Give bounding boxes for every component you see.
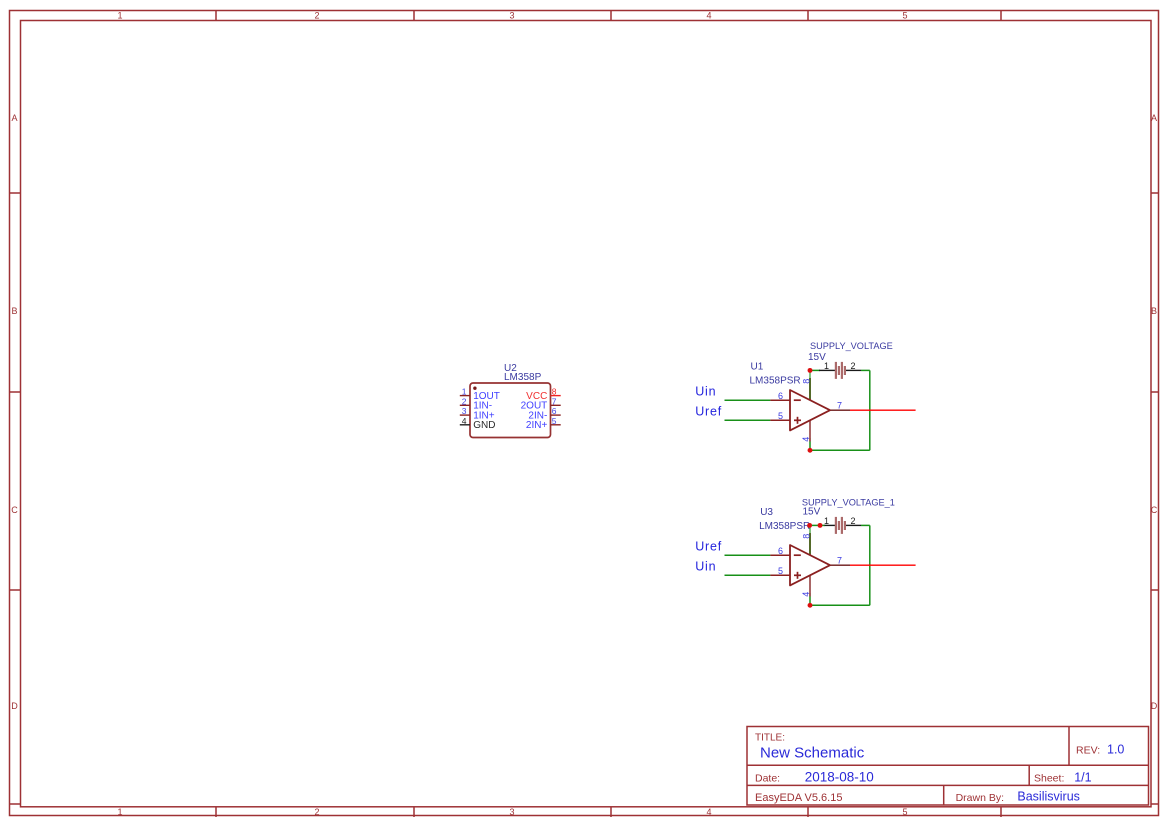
svg-text:4: 4 bbox=[801, 592, 811, 597]
wire node to pin 8 (U3) bbox=[809, 525, 811, 554]
svg-text:8: 8 bbox=[801, 379, 811, 384]
wire bottom horizontal (U3) bbox=[810, 604, 870, 606]
svg-text:Date:: Date: bbox=[755, 772, 780, 784]
svg-text:4: 4 bbox=[706, 11, 711, 21]
U2 pin 4 bbox=[460, 424, 470, 426]
svg-text:LM358P: LM358P bbox=[504, 372, 542, 383]
svg-text:Basilisvirus: Basilisvirus bbox=[1017, 790, 1080, 804]
U2 pin1 orientation dot bbox=[473, 387, 476, 390]
wire node to battery pin 1 bbox=[810, 369, 820, 371]
wire Uin to pin 5 (U3) bbox=[725, 574, 771, 576]
wire node to battery pin 1 (U3) bbox=[810, 524, 825, 526]
svg-text:1: 1 bbox=[117, 807, 122, 817]
junction node bottom bbox=[808, 448, 813, 453]
svg-text:New Schematic: New Schematic bbox=[760, 745, 865, 762]
wire battery pin 2 to right corner (U3) bbox=[861, 524, 870, 526]
svg-text:7: 7 bbox=[552, 396, 557, 406]
op-amp U1 pin 7 bbox=[830, 409, 850, 411]
svg-text:Uref: Uref bbox=[695, 540, 722, 554]
svg-text:15V: 15V bbox=[803, 507, 821, 518]
svg-text:2: 2 bbox=[850, 516, 855, 526]
battery plates bbox=[836, 362, 845, 379]
svg-text:REV:: REV: bbox=[1076, 745, 1100, 757]
svg-text:4: 4 bbox=[462, 416, 467, 426]
U2 pin 3 bbox=[460, 414, 470, 416]
svg-text:3: 3 bbox=[509, 11, 514, 21]
op-amp U3 minus sign bbox=[794, 554, 801, 556]
U2 pin 5 bbox=[551, 424, 561, 426]
svg-text:6: 6 bbox=[552, 406, 557, 416]
svg-text:3: 3 bbox=[462, 406, 467, 416]
junction node bottom (U3) bbox=[808, 603, 813, 608]
wire right vertical (U3) bbox=[869, 525, 871, 605]
svg-text:7: 7 bbox=[837, 556, 842, 566]
battery pin 1 lead bbox=[819, 369, 835, 371]
svg-text:Uref: Uref bbox=[695, 404, 722, 418]
op-amp U3 plus sign bbox=[794, 574, 801, 576]
IC U2 LM358P bbox=[460, 363, 561, 438]
op-amp U1 minus sign bbox=[794, 399, 801, 401]
op-amp U1 pin 8 bbox=[809, 378, 811, 400]
wire Uref to pin 6 (U3) bbox=[725, 554, 771, 556]
svg-text:SUPPLY_VOLTAGE: SUPPLY_VOLTAGE bbox=[810, 341, 893, 351]
svg-text:Drawn By:: Drawn By: bbox=[956, 792, 1004, 804]
svg-text:2: 2 bbox=[462, 396, 467, 406]
wire right vertical bbox=[869, 370, 871, 450]
U2 pin 8 bbox=[551, 395, 561, 397]
svg-text:6: 6 bbox=[778, 391, 783, 401]
U2 pin 6 bbox=[551, 414, 561, 416]
svg-text:A: A bbox=[11, 113, 17, 123]
svg-text:8: 8 bbox=[801, 534, 811, 539]
U2 pin 7 bbox=[551, 404, 561, 406]
svg-text:1: 1 bbox=[824, 361, 829, 371]
wire Uref to pin 5 bbox=[725, 419, 771, 421]
svg-text:D: D bbox=[11, 701, 18, 711]
svg-text:1: 1 bbox=[117, 11, 122, 21]
op-amp U1 triangle bbox=[790, 390, 830, 430]
output wire pin 7 bbox=[850, 409, 916, 411]
svg-text:TITLE:: TITLE: bbox=[755, 733, 785, 744]
svg-text:2018-08-10: 2018-08-10 bbox=[805, 769, 874, 784]
svg-text:D: D bbox=[1151, 701, 1158, 711]
svg-text:5: 5 bbox=[778, 566, 783, 576]
battery pin 2 lead bbox=[846, 369, 861, 371]
svg-text:LM358PSR: LM358PSR bbox=[759, 521, 810, 532]
op-amp U3 pin 8 bbox=[809, 533, 811, 555]
svg-text:LM358PSR: LM358PSR bbox=[750, 376, 801, 387]
op-amp U1 pin 5 bbox=[770, 419, 790, 421]
svg-text:U1: U1 bbox=[751, 362, 764, 373]
svg-text:4: 4 bbox=[801, 437, 811, 442]
op-amp U3 pin 7 bbox=[830, 564, 850, 566]
junction node top bbox=[808, 368, 813, 373]
svg-text:3: 3 bbox=[509, 807, 514, 817]
wire battery pin 2 to right corner bbox=[861, 369, 870, 371]
op-amp U3 pin 4 bbox=[809, 575, 811, 596]
svg-text:5: 5 bbox=[778, 411, 783, 421]
svg-text:2: 2 bbox=[850, 361, 855, 371]
op-amp U1 pin 4 bbox=[809, 420, 811, 441]
junction node top left (U3) bbox=[807, 523, 812, 528]
battery plates (U3) bbox=[836, 517, 845, 534]
junction node top right (U3) bbox=[818, 523, 823, 528]
output wire pin 7 (U3) bbox=[850, 564, 916, 566]
svg-text:1: 1 bbox=[824, 516, 829, 526]
svg-text:U3: U3 bbox=[760, 507, 773, 518]
svg-text:1.0: 1.0 bbox=[1107, 743, 1124, 757]
wire Uin to pin 6 bbox=[725, 399, 771, 401]
op-amp U3 pin 6 bbox=[770, 554, 790, 556]
battery pin 1 lead (U3) bbox=[825, 524, 836, 526]
op-amp U1 pin 6 bbox=[770, 399, 790, 401]
battery pin 2 lead (U3) bbox=[846, 524, 861, 526]
svg-text:GND: GND bbox=[473, 420, 495, 431]
op-amp U3 triangle bbox=[790, 545, 830, 585]
U2 body bbox=[470, 383, 551, 438]
svg-text:2IN+: 2IN+ bbox=[526, 420, 548, 431]
svg-text:1/1: 1/1 bbox=[1074, 770, 1091, 784]
svg-text:1: 1 bbox=[462, 387, 467, 397]
svg-text:C: C bbox=[11, 505, 18, 515]
svg-text:7: 7 bbox=[837, 401, 842, 411]
wire bottom horizontal bbox=[810, 449, 870, 451]
U2 pin 1 bbox=[460, 395, 470, 397]
svg-text:2: 2 bbox=[314, 807, 319, 817]
svg-text:C: C bbox=[1151, 505, 1158, 515]
svg-text:B: B bbox=[11, 306, 17, 316]
svg-text:Uin: Uin bbox=[695, 560, 716, 574]
wire node to pin 8 bbox=[809, 370, 811, 399]
svg-text:8: 8 bbox=[552, 387, 557, 397]
svg-text:5: 5 bbox=[902, 807, 907, 817]
svg-text:5: 5 bbox=[552, 416, 557, 426]
wire pin 4 to node bbox=[809, 438, 811, 450]
svg-text:Uin: Uin bbox=[695, 385, 716, 399]
svg-text:B: B bbox=[1151, 306, 1157, 316]
svg-text:2: 2 bbox=[314, 11, 319, 21]
wire pin 4 to node (U3) bbox=[809, 593, 811, 605]
svg-text:5: 5 bbox=[902, 11, 907, 21]
op-amp U3 pin 5 bbox=[770, 574, 790, 576]
svg-text:4: 4 bbox=[706, 807, 711, 817]
svg-text:EasyEDA V5.6.15: EasyEDA V5.6.15 bbox=[755, 792, 842, 804]
svg-text:6: 6 bbox=[778, 546, 783, 556]
svg-text:A: A bbox=[1151, 113, 1157, 123]
op-amp U1 plus sign bbox=[794, 419, 801, 421]
svg-text:Sheet:: Sheet: bbox=[1034, 772, 1064, 784]
U2 pin 2 bbox=[460, 404, 470, 406]
